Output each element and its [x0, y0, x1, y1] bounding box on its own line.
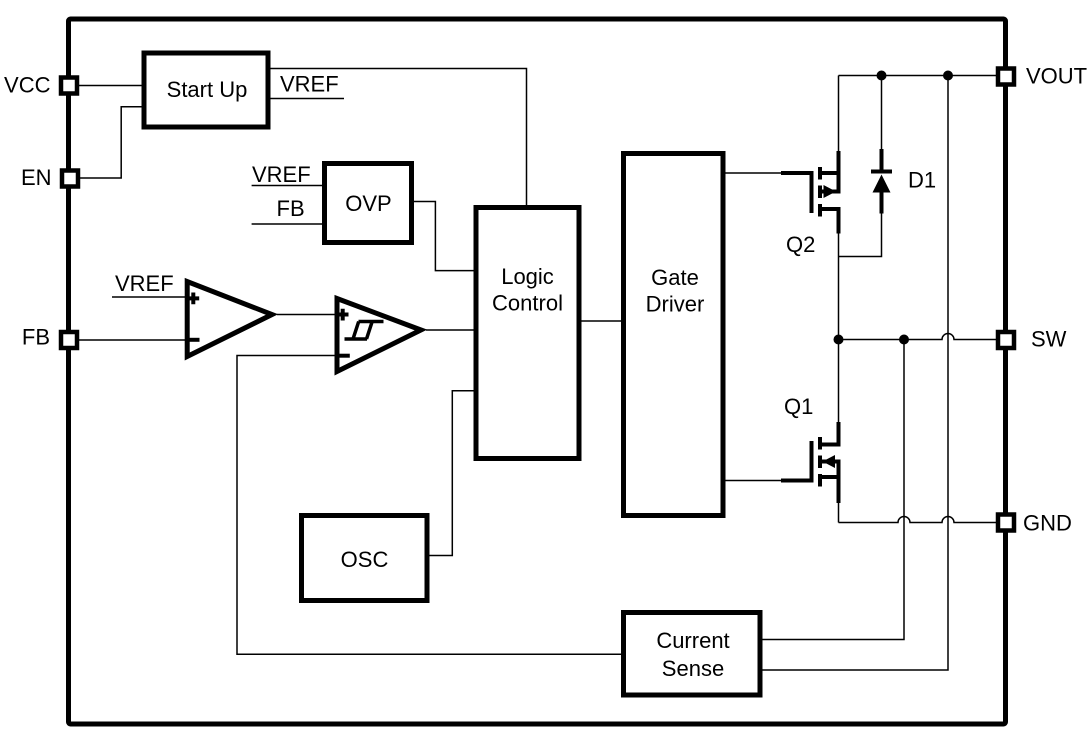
svg-text:VOUT: VOUT	[1026, 64, 1087, 89]
block Logic Control	[476, 208, 579, 459]
svg-text:D1: D1	[908, 168, 936, 193]
svg-text:VREF: VREF	[252, 162, 311, 187]
wire Logic Control output to Gate Driver	[579, 320, 624, 322]
label Logic Control	[492, 264, 563, 316]
wire OVP output to Logic Control	[414, 202, 476, 271]
svg-text:SW: SW	[1031, 327, 1067, 352]
svg-text:FB: FB	[277, 196, 305, 221]
wire current sense feedback to comparator U2 minus input	[237, 356, 624, 655]
svg-text:GND: GND	[1023, 511, 1072, 536]
wire current sense output to SW rail	[760, 340, 904, 640]
junction dot D1 on VOUT rail	[877, 71, 887, 81]
op-amp U1 error amplifier	[187, 282, 272, 357]
svg-text:Q2: Q2	[786, 232, 815, 257]
svg-text:VCC: VCC	[4, 73, 51, 98]
svg-text:Control: Control	[492, 291, 563, 316]
pin FB	[61, 332, 77, 348]
pin SW	[998, 332, 1014, 348]
label Gate Driver	[646, 265, 705, 317]
transistor Q1 NMOS	[781, 422, 839, 503]
svg-text:OSC: OSC	[341, 547, 389, 572]
junction dot current sense line on SW rail	[899, 335, 909, 345]
pin GND	[998, 515, 1014, 531]
svg-text:Gate: Gate	[651, 265, 699, 290]
svg-text:EN: EN	[21, 165, 52, 190]
svg-text:Driver: Driver	[646, 292, 705, 317]
svg-text:Start Up: Start Up	[167, 77, 248, 102]
wire Q2 source down to SW rail	[838, 233, 840, 340]
block OVP	[325, 164, 412, 243]
wire VOUT rail	[839, 75, 999, 77]
wire GND rail with hops	[839, 517, 999, 523]
block Gate Driver	[624, 154, 724, 516]
block OSC	[302, 516, 428, 601]
diode D1	[871, 149, 892, 214]
transistor Q2 PMOS	[781, 151, 839, 234]
svg-text:FB: FB	[22, 325, 50, 350]
transistor Q2 body arrow	[824, 185, 837, 198]
wire Start Up output to Logic Control top	[271, 69, 527, 208]
block Start Up	[144, 53, 268, 127]
wire Q2 drain to VOUT rail	[838, 76, 840, 153]
wire net VREF into OVP	[252, 185, 325, 187]
comparator U2 hysteresis symbol	[345, 322, 384, 340]
comparator U2 schmitt trigger	[337, 299, 421, 372]
svg-text:Sense: Sense	[662, 656, 724, 681]
op-amp U1 plus input marker	[188, 293, 200, 305]
wire Q1 source to GND rail	[838, 503, 840, 523]
wire op-amp U1 output to comparator U2 plus input	[277, 314, 337, 316]
wire current sense output to VOUT rail	[760, 76, 948, 671]
junction dot Q2 source on SW rail	[834, 335, 844, 345]
pin EN	[62, 171, 78, 187]
svg-text:VREF: VREF	[115, 271, 174, 296]
svg-text:VREF: VREF	[280, 72, 339, 97]
wire net VREF to op-amp U1 plus input	[112, 296, 187, 298]
pin VCC	[61, 78, 77, 94]
diode D1 anode triangle	[873, 175, 891, 193]
svg-text:Q1: Q1	[784, 394, 813, 419]
wire net VREF stub from Start Up	[271, 98, 345, 100]
junction dot current sense line on VOUT rail	[943, 71, 953, 81]
wire VCC pin to Start Up	[79, 85, 144, 87]
wire FB pin to op-amp U1 minus input	[79, 339, 187, 341]
block Current Sense	[624, 613, 761, 696]
wire comparator U2 output to Logic Control	[426, 329, 476, 331]
wire SW rail with hop	[839, 334, 999, 340]
svg-text:Logic: Logic	[501, 264, 554, 289]
wire Gate Driver to Q2 gate	[723, 172, 781, 174]
svg-text:OVP: OVP	[345, 191, 391, 216]
svg-text:Current: Current	[656, 628, 729, 653]
comparator U2 plus input marker	[337, 309, 349, 321]
comparator U2 minus input marker	[338, 354, 350, 358]
wire EN pin to Start Up	[80, 107, 144, 178]
wire net FB into OVP	[252, 223, 325, 225]
wire Q1 drain from SW rail	[838, 340, 840, 423]
op-amp U1 minus input marker	[188, 338, 200, 342]
wire diode D1 top to VOUT rail	[881, 76, 883, 150]
transistor Q1 body arrow	[823, 455, 836, 468]
wire OSC output to Logic Control	[427, 391, 476, 556]
label Current Sense	[656, 628, 729, 681]
pin VOUT	[998, 69, 1014, 85]
wire diode D1 bottom to Q2 source	[839, 214, 882, 257]
wire Gate Driver to Q1 gate	[723, 480, 781, 482]
